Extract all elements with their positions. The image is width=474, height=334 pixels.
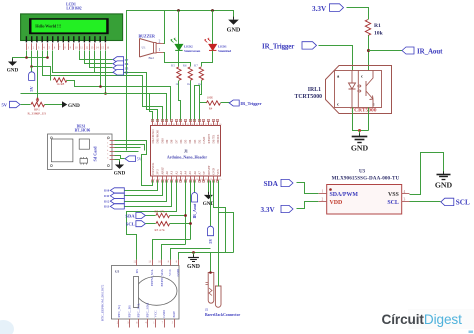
wire R4 to IR_Trigger flag: [221, 102, 230, 104]
wire SD p6 to GND: [115, 160, 120, 165]
svg-text:TCRT5000: TCRT5000: [350, 108, 376, 114]
svg-text:9: 9: [191, 179, 192, 181]
svg-text:DS: DS: [135, 269, 139, 273]
svg-text:A2: A2: [174, 171, 178, 175]
svg-text:BAT: BAT: [172, 310, 176, 317]
svg-text:RESET: RESET: [207, 134, 211, 144]
svg-text:3.3V: 3.3V: [261, 206, 276, 214]
wire LED2 to R5: [178, 51, 180, 67]
svg-text:R7: R7: [194, 63, 198, 67]
resistor R8 1k backlight: [54, 78, 67, 82]
wire VSS to GND: [410, 153, 444, 195]
svg-text:7: 7: [182, 179, 184, 181]
svg-text:VCC: VCC: [168, 268, 172, 276]
svg-text:3: 3: [163, 179, 165, 181]
svg-text:D13: D13: [104, 205, 110, 209]
svg-text:LCD1602: LCD1602: [66, 7, 81, 11]
svg-text:J1: J1: [184, 150, 188, 154]
svg-text:2: 2: [107, 142, 108, 144]
svg-text:19: 19: [168, 124, 170, 126]
svg-text:D5: D5: [184, 139, 188, 143]
J1 bottom pins with numbers and names: [152, 176, 154, 181]
CircuitDigest logo: [382, 312, 462, 327]
svg-text:IRL1: IRL1: [308, 87, 321, 93]
MLX pins: [319, 193, 327, 195]
svg-text:13: 13: [148, 261, 151, 264]
svg-text:IR_Aout: IR_Aout: [192, 203, 197, 219]
svg-text:D8: D8: [170, 139, 174, 143]
svg-text:GND: GND: [7, 68, 19, 74]
svg-text:U3: U3: [359, 170, 366, 175]
wire R3 to junction / A5: [170, 223, 191, 225]
wire SD p2: [115, 145, 145, 151]
junction gnd rail: [192, 251, 195, 254]
svg-text:GND: GND: [435, 181, 453, 190]
svg-text:D4: D4: [188, 139, 192, 143]
svg-text:3: 3: [127, 322, 129, 325]
wire LCD D7 pin14 to flag: [95, 51, 113, 73]
wire barrel jack feed: [210, 253, 212, 273]
svg-text:D11/MOSI: D11/MOSI: [156, 130, 160, 144]
svg-text:6: 6: [177, 179, 179, 181]
wire SCL pin3 to flag: [410, 201, 441, 203]
RTC bottom pins: [118, 319, 120, 328]
wire gnd pin run right: [214, 181, 226, 253]
svg-text:5: 5: [49, 46, 51, 49]
svg-text:Sd Card: Sd Card: [93, 146, 98, 162]
svg-text:4: 4: [404, 190, 406, 194]
svg-text:8: 8: [176, 261, 178, 264]
svg-text:4: 4: [43, 46, 45, 49]
wire SCL down to RTC: [153, 240, 191, 260]
svg-text:A4: A4: [184, 171, 188, 175]
wire flag D13 to header: [125, 181, 172, 207]
wire LCD D5 pin12 to flag: [85, 51, 113, 64]
svg-text:29: 29: [214, 124, 216, 126]
net flags D7 D6 D5 D4: [113, 57, 124, 63]
svg-text:Bud: Bud: [149, 56, 155, 60]
wire LCD pin16 rail B: [105, 51, 107, 94]
svg-text:VCC: VCC: [154, 310, 158, 318]
svg-text:D12: D12: [104, 199, 110, 203]
svg-text:BarrelJackConnector: BarrelJackConnector: [205, 313, 240, 317]
svg-text:R_3386P_US: R_3386P_US: [28, 112, 47, 116]
svg-text:1: 1: [28, 46, 30, 49]
LED2 5mmGreen: [178, 11, 180, 45]
svg-text:D3: D3: [193, 139, 197, 143]
svg-text:5V: 5V: [208, 239, 213, 244]
svg-text:4: 4: [168, 179, 170, 181]
wire SDA to pin1: [297, 183, 319, 194]
svg-text:5: 5: [173, 179, 175, 181]
svg-text:5: 5: [172, 322, 174, 325]
svg-text:3.3V: 3.3V: [312, 5, 327, 13]
junction lcd vdd: [30, 65, 33, 68]
svg-text:D6: D6: [179, 139, 183, 143]
net label SCL mlx: [441, 198, 454, 205]
wire RTC VCC to 5V: [171, 249, 211, 260]
svg-text:EEPM_SDA: EEPM_SDA: [160, 268, 164, 286]
wire SDA down to RTC: [162, 245, 186, 260]
svg-text:GND: GND: [227, 26, 241, 33]
svg-text:c: c: [337, 101, 339, 106]
module DES1 right pins: [110, 140, 115, 142]
svg-text:IR_Trigger: IR_Trigger: [240, 101, 261, 106]
svg-text:RESET: RESET: [207, 165, 211, 175]
svg-text:1: 1: [107, 139, 108, 141]
svg-text:3V3: 3V3: [156, 169, 160, 175]
wire SCL flag to R3: [146, 223, 156, 225]
svg-text:D10: D10: [104, 189, 110, 193]
svg-text:Arduino_Nano_Header: Arduino_Nano_Header: [167, 154, 207, 159]
wire LCD pin6 E nested: [53, 51, 158, 121]
svg-text:R2 4.7k: R2 4.7k: [155, 209, 166, 213]
svg-text:D12/MISO: D12/MISO: [151, 129, 155, 144]
svg-text:10: 10: [75, 46, 78, 49]
ground GND top rail: [233, 17, 235, 20]
svg-text:8: 8: [187, 179, 189, 181]
svg-text:GND: GND: [203, 201, 215, 207]
svg-text:c: c: [361, 73, 363, 78]
svg-text:12: 12: [205, 179, 207, 181]
wire RP1 to gnd: [45, 104, 63, 106]
ground GND rtc rail: [193, 255, 195, 258]
svg-text:R5: R5: [171, 63, 175, 67]
TCRT internal LED: [349, 71, 356, 108]
svg-text:R1: R1: [374, 23, 381, 29]
svg-text:SDA/PWM: SDA/PWM: [330, 192, 359, 198]
svg-text:D10: D10: [160, 138, 164, 144]
net flags D10 D11 D12 D13: [110, 188, 124, 193]
ground GND lcd left: [12, 59, 14, 62]
svg-text:22: 22: [182, 124, 184, 126]
svg-text:A1: A1: [170, 171, 174, 175]
svg-text:30: 30: [219, 124, 222, 126]
svg-text:A0: A0: [165, 171, 169, 175]
connector J1 Arduino_Nano_Header body: [151, 126, 221, 177]
svg-text:SCL: SCL: [387, 200, 399, 206]
svg-text:7: 7: [59, 46, 61, 49]
svg-text:U5: U5: [115, 269, 119, 273]
svg-text:2: 2: [159, 39, 161, 43]
wire RTC GND rail: [179, 253, 234, 260]
J1 top pins with numbers and names: [152, 121, 154, 126]
svg-text:16: 16: [107, 46, 110, 49]
LED1 5mmRed: [212, 11, 214, 45]
svg-text:7: 7: [162, 322, 164, 325]
svg-text:A7: A7: [198, 171, 202, 175]
svg-text:5V: 5V: [202, 170, 206, 175]
wire SD p5 to 5V flag: [115, 156, 125, 159]
svg-text:1: 1: [154, 179, 155, 181]
svg-text:BUZZER: BUZZER: [139, 34, 156, 39]
svg-text:R3 4.7k: R3 4.7k: [155, 228, 166, 232]
opto sensor IRL1 TCRT5000: [326, 66, 392, 114]
svg-text:RTC_SDA: RTC_SDA: [146, 302, 150, 317]
power flag 5V sd: [125, 156, 136, 162]
wire flag D10 to header: [125, 181, 158, 191]
LCD pin pads and stubs 1-16: [26, 36, 27, 42]
svg-text:D9: D9: [165, 139, 169, 143]
svg-text:A6: A6: [193, 171, 197, 175]
svg-text:GND: GND: [114, 171, 126, 177]
wire flag D11 to header: [125, 181, 163, 196]
svg-text:6: 6: [54, 46, 56, 49]
svg-text:U1: U1: [142, 45, 146, 49]
LCD LCD1602 module body: [21, 14, 123, 41]
wire LCD pin4 RS nested: [43, 51, 163, 121]
potentiometer RP1 R_3386P_US: [31, 102, 44, 106]
svg-text:9: 9: [168, 261, 170, 264]
power flag 5V vertical under header: [210, 181, 212, 227]
svg-text:3: 3: [38, 46, 40, 49]
svg-text:5V: 5V: [2, 103, 8, 108]
wire 3.3V to R1: [347, 8, 369, 20]
wire R1 to junction: [368, 36, 370, 71]
wire header pin6 to RTC DS: [127, 181, 177, 260]
svg-text:GND: GND: [351, 144, 369, 153]
wire barrel second pin: [218, 181, 220, 287]
wire LCD pin2 5V rail: [32, 51, 51, 81]
junction top rail leds: [177, 9, 180, 12]
svg-text:5V: 5V: [137, 158, 142, 162]
svg-text:D2: D2: [198, 139, 202, 143]
svg-text:D11: D11: [104, 194, 110, 198]
module DES1 chip icon: [80, 159, 87, 164]
module DES1 body: [48, 134, 113, 170]
svg-text:D13/SCK: D13/SCK: [151, 162, 155, 175]
svg-text:RTC_DS: RTC_DS: [128, 305, 132, 318]
wire TCRT cathode/emitter to GND: [368, 108, 370, 131]
svg-text:1: 1: [322, 190, 324, 194]
svg-text:VSS: VSS: [388, 192, 400, 198]
svg-text:GND: GND: [176, 268, 180, 276]
svg-text:1k: 1k: [187, 82, 191, 86]
wire R2 to junction / A4: [170, 215, 186, 217]
svg-text:12: 12: [86, 46, 89, 49]
svg-text:5mmGreen: 5mmGreen: [184, 49, 200, 53]
svg-text:10k: 10k: [374, 31, 384, 37]
power flag 5V vertical below vdd rail: [31, 67, 33, 72]
ground GND under header: [208, 181, 210, 195]
svg-text:15: 15: [219, 179, 222, 181]
svg-text:5V: 5V: [29, 86, 34, 91]
RTC coin cell: [136, 277, 177, 306]
svg-text:A5: A5: [188, 171, 192, 175]
ground GND pot (sideways): [62, 101, 67, 107]
wire buzzer pin2 to 5V rail: [164, 11, 165, 44]
wire SD p3: [115, 147, 141, 149]
svg-text:AREF: AREF: [160, 167, 164, 175]
net label IR_Aout vertical: [194, 181, 196, 193]
svg-text:EEPM_SCL: EEPM_SCL: [150, 269, 154, 286]
svg-text:IR_Aout: IR_Aout: [417, 47, 443, 55]
svg-text:13: 13: [91, 46, 94, 49]
ground GND mlx: [443, 171, 445, 174]
svg-text:GND: GND: [187, 264, 200, 270]
svg-text:Hello World !!!: Hello World !!!: [35, 23, 61, 28]
svg-text:15: 15: [101, 46, 104, 49]
wire LCD D6 pin13 to flag: [90, 51, 113, 68]
wire LCD D4 pin11 to flag: [80, 51, 113, 60]
wire vin run: [219, 213, 234, 253]
svg-text:a: a: [337, 73, 340, 78]
svg-text:8: 8: [64, 46, 66, 49]
svg-text:MLX90615SSG-DAA-000-TU: MLX90615SSG-DAA-000-TU: [332, 176, 400, 182]
wire LCD pin1/pin5 GND rail: [13, 58, 48, 61]
svg-text:9: 9: [70, 46, 72, 49]
wire 5V top rail: [127, 11, 234, 151]
svg-text:6: 6: [136, 322, 138, 325]
junction IR_Aout: [367, 49, 370, 52]
junction LCD gnd rail: [25, 56, 28, 59]
svg-text:SDA: SDA: [264, 180, 279, 188]
RTC top pins: [136, 260, 138, 266]
resistor R4 100E: [195, 86, 207, 121]
svg-text:SCL: SCL: [456, 199, 470, 207]
svg-text:GND: GND: [211, 167, 215, 174]
net label IR_Trigger (mid): [229, 100, 239, 106]
svg-text:2: 2: [33, 46, 35, 49]
wire IR_Trigger to TCRT anode: [319, 46, 353, 71]
buzzer pins: [156, 43, 164, 45]
wire 5V to RP1: [21, 104, 31, 106]
ground GND tcrt: [359, 134, 361, 137]
wire flag D12 to header: [125, 181, 167, 202]
wire R8 to rail A: [67, 81, 171, 121]
wire buzzer pin1 to R6: [164, 53, 191, 67]
svg-text:1: 1: [159, 48, 161, 52]
svg-text:A3: A3: [179, 171, 183, 175]
connector J2 BarrelJackConnector: [208, 272, 214, 303]
svg-text:11: 11: [80, 46, 83, 49]
net label IR_Aout: [402, 47, 414, 54]
svg-text:RTC_EEPROM_DS13072: RTC_EEPROM_DS13072: [101, 284, 105, 321]
svg-text:VIN: VIN: [216, 169, 220, 175]
svg-text:1: 1: [153, 322, 155, 325]
TCRT internal phototransistor: [366, 71, 373, 108]
svg-text:GND: GND: [68, 103, 80, 109]
decorative: [408, 309, 474, 329]
svg-text:IR_Trigger: IR_Trigger: [262, 43, 294, 51]
resistor R3 4.7k: [156, 222, 170, 226]
wire 3.3V to pin2 VDD: [297, 202, 319, 209]
svg-text:4: 4: [145, 322, 147, 325]
svg-text:RTC_SCL: RTC_SCL: [137, 303, 141, 317]
IC U3 MLX90615 body: [327, 185, 402, 215]
svg-text:5mmRed: 5mmRed: [218, 49, 231, 53]
IC U5 RTC_EEPROM_DS13072 body: [112, 266, 180, 320]
svg-text:R4: R4: [209, 107, 213, 111]
wire SDA flag to R2: [146, 215, 156, 217]
wire SD p1: [115, 141, 153, 186]
svg-text:RTC_SQ: RTC_SQ: [117, 305, 121, 318]
svg-text:BT_HC06: BT_HC06: [75, 129, 91, 133]
svg-text:GND: GND: [202, 136, 206, 143]
wire nested inner to header pin1: [150, 94, 153, 121]
svg-text:2: 2: [159, 179, 160, 181]
wire SD p4: [115, 151, 139, 153]
svg-text:SCL: SCL: [126, 222, 135, 227]
ground GND sd: [119, 162, 121, 165]
svg-text:100E: 100E: [207, 95, 214, 99]
svg-text:VDD: VDD: [330, 200, 343, 206]
wire LCD pin3 to pot wiper: [37, 51, 39, 99]
svg-text:1k R8: 1k R8: [57, 82, 65, 86]
resistor R1 10k: [365, 20, 370, 36]
wire LCD pin15 to rail A: [100, 51, 102, 87]
svg-text:D7: D7: [174, 139, 178, 143]
svg-text:R6: R6: [183, 63, 187, 67]
svg-text:2: 2: [322, 197, 324, 201]
svg-text:TCRT5000: TCRT5000: [295, 94, 323, 100]
svg-text:D1/TX: D1/TX: [211, 134, 215, 144]
svg-text:GND: GND: [162, 310, 166, 318]
svg-text:21: 21: [177, 124, 179, 126]
wire LED1 to R7: [202, 51, 213, 67]
svg-text:14: 14: [96, 46, 99, 49]
wire junction to IR_Aout flag: [369, 50, 403, 52]
svg-text:SDA: SDA: [125, 213, 135, 218]
svg-text:D0/RX: D0/RX: [216, 134, 220, 144]
svg-text:J2: J2: [205, 308, 209, 312]
wires R5 R6 R7 to header pins: [179, 81, 181, 121]
svg-text:3: 3: [404, 198, 406, 202]
